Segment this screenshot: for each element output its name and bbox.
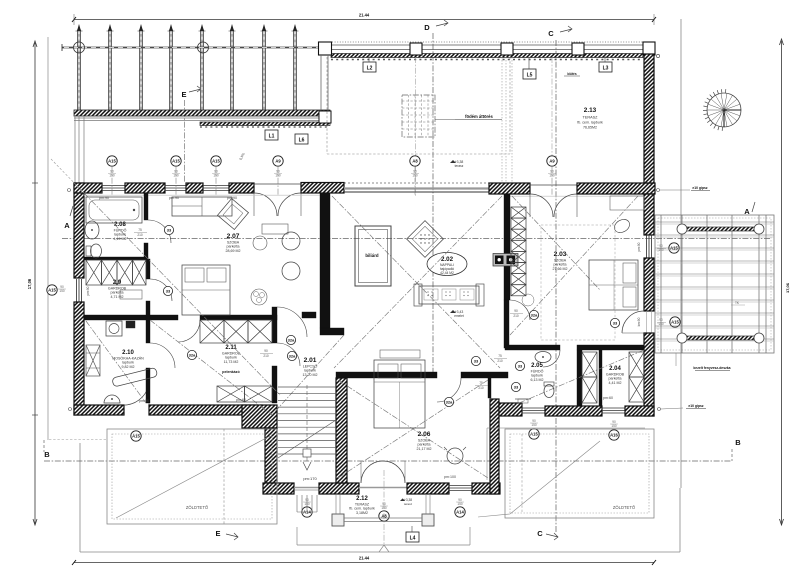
column axis x552 bbox=[551, 57, 553, 160]
svg-text:A15: A15 bbox=[172, 159, 180, 164]
terrace edge band L1 bbox=[74, 110, 330, 126]
room label 2.02 ellipse bbox=[427, 253, 467, 276]
svg-text:32a: 32a bbox=[446, 399, 453, 404]
svg-text:3,18M2: 3,18M2 bbox=[356, 511, 368, 515]
svg-text:150: 150 bbox=[59, 289, 65, 293]
wall hall south a bbox=[336, 372, 437, 378]
wall north segment e hall T-top bbox=[301, 183, 344, 194]
svg-text:E: E bbox=[181, 90, 186, 99]
wall 2.06 right bbox=[490, 399, 499, 494]
wall south-right segment b bbox=[545, 406, 602, 416]
svg-text:kiütés: kiütés bbox=[567, 72, 576, 76]
door hall to bath corridor bbox=[510, 300, 530, 320]
svg-text:pelenkázó: pelenkázó bbox=[222, 370, 240, 374]
room label 2.11 bbox=[222, 345, 241, 374]
wall hall east lower bbox=[504, 300, 509, 348]
section marker D top bbox=[424, 20, 448, 32]
ref circle 33 b bbox=[163, 286, 172, 295]
wall partition horizontal mid b bbox=[200, 315, 277, 320]
room label 2.9 bbox=[108, 280, 127, 299]
svg-text:A: A bbox=[64, 221, 70, 230]
svg-text:A15: A15 bbox=[212, 159, 220, 164]
roof diagonal 2.10 bbox=[86, 321, 146, 403]
colonnade top edge bbox=[319, 42, 655, 58]
armchair 2.06 bbox=[444, 447, 466, 464]
roof diagonal left wing bbox=[84, 193, 280, 395]
leader circle left bottom bbox=[69, 408, 72, 411]
svg-text:32a: 32a bbox=[189, 352, 196, 357]
room label 2.06 bbox=[417, 431, 432, 451]
wall hall west bbox=[320, 193, 330, 328]
svg-text:210: 210 bbox=[263, 354, 269, 358]
svg-text:2.12: 2.12 bbox=[356, 496, 368, 502]
wardrobe 2.11 bottom bbox=[217, 386, 272, 402]
svg-text:4,41 M2: 4,41 M2 bbox=[609, 381, 622, 385]
svg-text:150: 150 bbox=[531, 423, 537, 427]
door 2.08 bbox=[148, 220, 171, 243]
sofa corner rotated bbox=[407, 221, 444, 258]
svg-text:pm:90: pm:90 bbox=[227, 196, 237, 200]
leader e10 gipsz right bottom bbox=[658, 404, 707, 411]
room label 2.05 bbox=[531, 363, 544, 382]
svg-text:42,44 M2: 42,44 M2 bbox=[440, 271, 454, 275]
svg-text:2.10: 2.10 bbox=[122, 350, 134, 356]
billiard table bbox=[355, 226, 391, 286]
section marker E bottom bbox=[215, 529, 238, 540]
svg-text:17,06: 17,06 bbox=[27, 278, 32, 289]
svg-text:28,69 M2: 28,69 M2 bbox=[226, 249, 241, 253]
roof diagonal bath wing bbox=[512, 350, 644, 406]
column axis x415 bbox=[415, 57, 417, 196]
svg-text:ZÖLDTETŐ: ZÖLDTETŐ bbox=[613, 505, 636, 510]
svg-text:km:90: km:90 bbox=[637, 317, 641, 326]
terrace 2.12 posts bbox=[332, 494, 434, 526]
svg-text:33: 33 bbox=[514, 384, 519, 389]
svg-text:75: 75 bbox=[479, 381, 483, 385]
section line A-A bbox=[62, 238, 770, 240]
svg-text:A9: A9 bbox=[549, 159, 555, 164]
svg-text:4,71 M2: 4,71 M2 bbox=[111, 295, 124, 299]
site outline bottom bbox=[80, 443, 680, 552]
left dimension line bbox=[27, 41, 38, 525]
marker A14 bottom bbox=[455, 498, 465, 517]
sink 2.05 bbox=[535, 352, 551, 363]
ref circle 32a c bbox=[187, 350, 196, 359]
french doors 2.06 south bbox=[359, 461, 407, 488]
wall left exterior lower bbox=[74, 302, 84, 415]
svg-text:C: C bbox=[548, 29, 554, 38]
svg-text:2.06: 2.06 bbox=[418, 431, 431, 438]
svg-text:33: 33 bbox=[166, 288, 171, 293]
door 2.11 east bbox=[277, 343, 300, 366]
wall partition horizontal left bbox=[84, 315, 146, 320]
colonnade column E bbox=[643, 42, 655, 55]
room label 2.03 bbox=[553, 251, 568, 271]
svg-text:75: 75 bbox=[138, 228, 142, 232]
room label 2.04 bbox=[606, 366, 625, 385]
wall bottom corner d bbox=[472, 483, 500, 494]
svg-text:C: C bbox=[537, 529, 543, 538]
svg-text:32a: 32a bbox=[531, 312, 538, 317]
wall partition horizontal mid a bbox=[150, 315, 178, 320]
washbasin wall 2.05 bbox=[515, 399, 531, 403]
door hall entry bbox=[277, 307, 307, 337]
wall 2.9 east a bbox=[146, 259, 150, 279]
wardrobe 2.04 right bbox=[629, 352, 644, 402]
window marker A15 x112 bbox=[107, 156, 117, 196]
wall left exterior upper bbox=[74, 183, 84, 278]
svg-text:90: 90 bbox=[514, 309, 518, 313]
terrace 2.13 dashed lines bbox=[327, 57, 512, 183]
bathroom 2.08 sink bbox=[85, 221, 99, 239]
svg-text:13,20 M2: 13,20 M2 bbox=[303, 373, 318, 377]
wall right segment b bbox=[644, 258, 654, 311]
roof diagonal 2.03b bbox=[512, 196, 600, 290]
ceiling dashed rect 2.03 bbox=[541, 225, 615, 340]
pergola beam bbox=[62, 42, 330, 53]
wall stair corner jog bbox=[242, 405, 277, 428]
colonnade corner circle bbox=[656, 54, 659, 57]
svg-text:33: 33 bbox=[518, 363, 523, 368]
section marker C top bbox=[548, 26, 572, 38]
window marker A9 x552 bbox=[547, 156, 557, 196]
wall 2.05 west bbox=[488, 375, 491, 398]
marker A8 bottom bbox=[379, 502, 389, 521]
green roof left bbox=[49, 429, 277, 524]
svg-text:L4: L4 bbox=[410, 536, 416, 542]
colonnade tooth row bbox=[331, 59, 643, 61]
desk 2.06 bbox=[487, 428, 645, 480]
left site boundary line bbox=[47, 37, 49, 440]
wall north segment b bbox=[125, 183, 165, 193]
svg-text:pm:90: pm:90 bbox=[99, 196, 109, 200]
wall north segment a bbox=[74, 183, 102, 193]
svg-text:E: E bbox=[215, 529, 220, 538]
svg-text:ZÖLDTETŐ: ZÖLDTETŐ bbox=[186, 505, 209, 510]
window left wall bbox=[77, 279, 82, 302]
svg-text:pm:60: pm:60 bbox=[603, 396, 613, 400]
top dimension line 21.44 bbox=[72, 13, 656, 26]
svg-text:A15: A15 bbox=[108, 159, 116, 164]
window right wall bbox=[647, 235, 652, 258]
roof diagonal 2.06 b bbox=[338, 380, 488, 478]
wall finish line left wing bbox=[84, 194, 320, 196]
timber deck right bbox=[655, 215, 774, 353]
svg-text:32a: 32a bbox=[289, 353, 296, 358]
door right wall to deck bbox=[622, 311, 644, 333]
svg-text:17,06: 17,06 bbox=[785, 282, 790, 293]
colonnade west posts bbox=[319, 55, 331, 123]
colonnade column 2 bbox=[501, 43, 513, 55]
marker A15 green roof right bbox=[529, 419, 539, 439]
svg-text:pm:90: pm:90 bbox=[169, 196, 179, 200]
section marker A left bbox=[64, 206, 73, 230]
wardrobe 2.9 bbox=[86, 260, 146, 285]
svg-text:9,82 M2: 9,82 M2 bbox=[122, 365, 135, 369]
section line E-E top bbox=[184, 100, 186, 183]
svg-text:75: 75 bbox=[498, 354, 502, 358]
svg-text:pm:90: pm:90 bbox=[139, 399, 149, 403]
slab opening grid bbox=[402, 95, 435, 137]
svg-text:210: 210 bbox=[497, 359, 503, 363]
svg-text:150: 150 bbox=[611, 424, 617, 428]
bottom dimension line 21.44 bbox=[72, 556, 656, 566]
svg-text:150: 150 bbox=[275, 174, 281, 178]
wall 2.10 east bbox=[146, 368, 150, 403]
wall 2.11 east b bbox=[272, 366, 277, 403]
label kiutes bbox=[564, 72, 580, 76]
pergola posts bbox=[76, 24, 299, 111]
radiator 2.9 bbox=[120, 290, 142, 299]
svg-text:33: 33 bbox=[167, 227, 172, 232]
marker A15 right wall bbox=[657, 243, 679, 253]
wardrobe 2.11 top bbox=[200, 320, 272, 343]
svg-text:2.11: 2.11 bbox=[225, 345, 237, 351]
wall bath top a bbox=[505, 345, 560, 350]
roof diagonal hall 1 bbox=[332, 196, 500, 368]
room label 2.12 bbox=[349, 496, 375, 515]
bathtub 2.08 bbox=[86, 197, 142, 223]
wardrobe 2.04 left bbox=[582, 352, 597, 403]
section marker C bottom bbox=[537, 529, 558, 540]
bench 2.10 bbox=[112, 367, 158, 387]
chair 2.07 diamond bbox=[218, 199, 249, 230]
wall hall south b bbox=[461, 372, 508, 378]
boiler 2.10 bbox=[86, 345, 100, 376]
roof diagonal 2.06 a bbox=[338, 380, 488, 478]
wall hall east bbox=[504, 194, 510, 300]
armchairs 2.07 bbox=[253, 232, 300, 280]
svg-text:210: 210 bbox=[137, 233, 143, 237]
wall hall west return bbox=[320, 328, 344, 335]
window 2.06 south bbox=[449, 486, 472, 491]
plant icon 2.06 bbox=[522, 294, 534, 306]
level mark terasz 2.13 bbox=[450, 160, 464, 168]
hall glass wall north bbox=[344, 189, 489, 193]
svg-text:fb. cem. lapburk: fb. cem. lapburk bbox=[577, 121, 603, 125]
ref circle 32a stair bbox=[286, 335, 295, 344]
marker A15 green roof bbox=[131, 431, 141, 441]
level mark emelet bbox=[450, 310, 464, 318]
roof diagonal stair bbox=[272, 335, 344, 415]
washing machine 2.10 bbox=[106, 321, 122, 336]
door pm170 stair exit bbox=[294, 488, 319, 491]
dim text 75 210 c bbox=[494, 354, 507, 363]
colonnade column 1 bbox=[410, 43, 422, 55]
svg-text:födém áttörés: födém áttörés bbox=[465, 114, 493, 119]
wall 2.08 east lower bbox=[144, 243, 148, 259]
svg-text:210: 210 bbox=[478, 386, 484, 390]
svg-text:2.02: 2.02 bbox=[441, 256, 454, 263]
wall bottom band b bbox=[319, 483, 359, 494]
door threshold right wall bbox=[647, 311, 652, 333]
door 2.9 bbox=[150, 279, 172, 301]
svg-text:A9: A9 bbox=[275, 159, 281, 164]
door 2.11 top bbox=[178, 320, 200, 342]
wall 2.9 east b bbox=[146, 301, 150, 343]
svg-text:emelet: emelet bbox=[454, 314, 464, 318]
deck label TK bbox=[731, 301, 745, 305]
svg-text:2.04: 2.04 bbox=[609, 366, 621, 372]
window W3 north bbox=[203, 186, 229, 191]
roof diagonal corner dash bbox=[51, 159, 84, 193]
svg-text:2.13: 2.13 bbox=[584, 107, 597, 114]
ref circle 32a stair2 bbox=[287, 351, 296, 360]
window S-right 2 bbox=[602, 408, 625, 413]
wall north segment g bbox=[577, 183, 655, 194]
wall 2.08 south bbox=[84, 257, 148, 260]
wall bath top b bbox=[577, 345, 644, 350]
wall bottom band c bbox=[407, 483, 449, 494]
wall stairwell left bbox=[265, 428, 277, 483]
wall bath partition bbox=[577, 350, 582, 406]
svg-text:L3: L3 bbox=[603, 66, 609, 72]
window marker A15 x216 bbox=[211, 156, 221, 196]
left terrace edge strip bbox=[75, 116, 84, 183]
ref circle 32a 203 bbox=[529, 310, 538, 319]
svg-text:A16: A16 bbox=[610, 433, 618, 438]
door 2.06 north bbox=[437, 378, 461, 402]
section marker A right bbox=[744, 202, 755, 216]
svg-text:6,13 M2: 6,13 M2 bbox=[531, 378, 544, 382]
window marker A8 x415 bbox=[410, 156, 420, 196]
label L6 bbox=[295, 134, 308, 144]
svg-text:biliárd: biliárd bbox=[365, 253, 378, 258]
svg-text:B: B bbox=[735, 438, 741, 447]
wall south-right corner bbox=[499, 403, 522, 416]
door north room 2.03 bbox=[530, 185, 577, 217]
room label 2.01 bbox=[303, 357, 318, 377]
section line B-B bbox=[44, 460, 732, 462]
svg-text:terasz: terasz bbox=[404, 502, 413, 506]
svg-text:pm:170: pm:170 bbox=[303, 476, 317, 481]
window marker A15 x176 bbox=[171, 156, 181, 196]
label L1 bbox=[265, 130, 278, 140]
svg-text:21,17 M2: 21,17 M2 bbox=[417, 447, 432, 451]
svg-text:pm:90: pm:90 bbox=[637, 242, 641, 251]
svg-text:4,19 M2: 4,19 M2 bbox=[114, 237, 127, 241]
svg-text:L1: L1 bbox=[269, 134, 275, 140]
svg-text:L5: L5 bbox=[527, 73, 533, 79]
table 2.07 bbox=[262, 224, 288, 234]
wall right terrace edge bbox=[644, 54, 654, 183]
label L3 bbox=[599, 54, 612, 72]
svg-text:L2: L2 bbox=[367, 66, 373, 72]
wall right segment a bbox=[644, 194, 654, 235]
svg-text:pm:90: pm:90 bbox=[86, 286, 90, 295]
wall finish line right rooms bbox=[510, 195, 644, 197]
svg-text:B: B bbox=[44, 450, 50, 459]
exterior steps at stair door bbox=[297, 495, 317, 512]
svg-text:27,66 M2: 27,66 M2 bbox=[553, 267, 568, 271]
svg-text:D: D bbox=[424, 23, 430, 32]
marker A15 right wall 2 bbox=[657, 317, 680, 327]
window marker A15 left wall bbox=[47, 285, 66, 295]
wall 2.11 east a bbox=[272, 307, 277, 343]
label L2 bbox=[363, 54, 376, 72]
wall south-left segment a bbox=[74, 405, 124, 415]
window W2 north bbox=[165, 186, 186, 191]
wall 2.04 partition bbox=[599, 350, 602, 406]
room label 2.07 bbox=[226, 233, 241, 253]
level mark 2.12 bbox=[400, 498, 413, 506]
wardrobe 2.03 bbox=[511, 207, 526, 296]
wall north segment f hall T-top right bbox=[489, 183, 530, 194]
terrace L1 tooth row bbox=[200, 126, 330, 128]
plant icon bbox=[251, 289, 267, 305]
dim text 90 210 e bbox=[510, 309, 523, 318]
svg-text:L6: L6 bbox=[299, 138, 305, 144]
section line C-C bbox=[555, 40, 557, 532]
wardrobe 2.03 top bbox=[610, 196, 644, 210]
wall stairwell right bbox=[336, 378, 347, 483]
wall north pier d bbox=[229, 183, 254, 193]
fodem attores label bbox=[435, 114, 502, 120]
svg-text:150: 150 bbox=[457, 502, 463, 506]
room label 2.10 bbox=[112, 350, 144, 369]
door south left wing bbox=[124, 380, 149, 405]
svg-text:kezelt fenyvesz-deszka: kezelt fenyvesz-deszka bbox=[693, 366, 730, 370]
svg-text:90: 90 bbox=[264, 349, 268, 353]
entry door north left wing bbox=[254, 184, 301, 216]
marker A14 bottom bbox=[302, 498, 312, 517]
small box 2.10 bbox=[126, 321, 135, 328]
svg-text:2.01: 2.01 bbox=[304, 357, 317, 364]
svg-text:210: 210 bbox=[513, 314, 519, 318]
svg-text:11,73 M2: 11,73 M2 bbox=[224, 360, 239, 364]
deck label bbox=[676, 353, 731, 371]
wall bottom band a bbox=[263, 483, 294, 494]
leader e10 gipsz right top bbox=[657, 186, 711, 192]
fireplace bbox=[493, 254, 518, 267]
wall 2.08 east upper bbox=[144, 193, 148, 220]
svg-text:21.44: 21.44 bbox=[359, 556, 370, 561]
dim text 75 210 a bbox=[134, 228, 147, 237]
svg-text:32a: 32a bbox=[288, 337, 295, 342]
svg-text:A15: A15 bbox=[671, 320, 679, 325]
svg-text:2.05: 2.05 bbox=[531, 363, 543, 369]
svg-text:76,65M2: 76,65M2 bbox=[583, 126, 597, 130]
svg-text:A8: A8 bbox=[412, 159, 418, 164]
svg-text:150: 150 bbox=[109, 174, 115, 178]
leader circle left top bbox=[68, 189, 71, 192]
door 2.05 bbox=[543, 350, 560, 367]
terrace 2.13 room label bbox=[577, 107, 603, 130]
ref circle 33 204 bbox=[610, 318, 619, 327]
bathroom 2.08 toilet bbox=[86, 244, 102, 258]
svg-text:150: 150 bbox=[412, 174, 418, 178]
svg-text:e10 gipsz: e10 gipsz bbox=[692, 186, 708, 190]
window marker A9 x278 bbox=[273, 156, 283, 196]
svg-text:2.07: 2.07 bbox=[227, 233, 240, 240]
wall south-right segment c bbox=[625, 406, 654, 416]
svg-text:150: 150 bbox=[213, 174, 219, 178]
svg-text:pm:100: pm:100 bbox=[444, 475, 456, 479]
section line E-E bottom bbox=[223, 429, 225, 524]
colonnade column 3 bbox=[572, 43, 584, 55]
right site boundary line bbox=[680, 19, 682, 488]
svg-text:terasz: terasz bbox=[455, 164, 464, 168]
section marker E top bbox=[181, 86, 201, 99]
roof diagonal hall 2 bbox=[334, 196, 502, 368]
sofa large bbox=[414, 284, 484, 306]
cat sketch 2.03 bbox=[612, 217, 632, 235]
section marker B right bbox=[732, 438, 741, 461]
bed 2.03 bbox=[589, 260, 638, 310]
label L5 bbox=[523, 58, 536, 79]
toilet 2.05 bbox=[544, 382, 554, 398]
wall right segment c bbox=[644, 333, 654, 416]
